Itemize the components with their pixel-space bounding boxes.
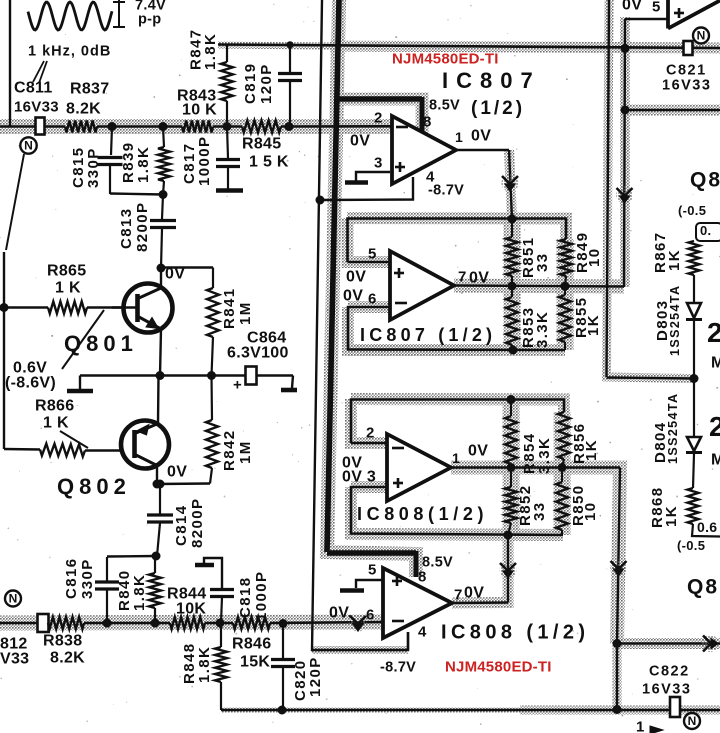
crossing mark xyxy=(502,175,519,192)
svg-text:R865: R865 xyxy=(47,263,86,280)
wire main bottom xyxy=(0,622,48,625)
junction dot xyxy=(316,196,325,205)
wire collector node xyxy=(160,268,162,288)
svg-text:8: 8 xyxy=(418,569,427,586)
op-amp U2 IC807b xyxy=(390,251,454,320)
svg-text:1K: 1K xyxy=(583,439,600,461)
junction dot xyxy=(508,282,517,291)
svg-text:3.3K: 3.3K xyxy=(536,437,553,474)
svg-text:1.8K: 1.8K xyxy=(135,146,152,183)
svg-text:p-p: p-p xyxy=(138,11,161,27)
junction dot xyxy=(153,480,162,489)
wire op3 output rail xyxy=(451,466,620,468)
svg-text:1K: 1K xyxy=(585,314,602,336)
capacitor C813 xyxy=(162,195,163,219)
junction dot xyxy=(108,122,117,131)
resistor R842 xyxy=(210,376,213,421)
svg-text:R845: R845 xyxy=(242,136,281,153)
svg-text:R841: R841 xyxy=(221,288,238,329)
svg-text:10K: 10K xyxy=(176,601,206,618)
leader R866 xyxy=(60,431,88,448)
waveform sine 1kHz xyxy=(28,2,112,30)
junction dot xyxy=(156,371,165,380)
resistor R855 xyxy=(564,286,566,295)
wire op4 output xyxy=(452,601,508,604)
resistor R866 xyxy=(4,448,40,451)
box IC808a xyxy=(351,400,564,444)
node N bottom-right xyxy=(684,713,700,729)
wire bottom rail xyxy=(221,709,720,712)
junction dot xyxy=(223,122,232,131)
resistor R868 xyxy=(693,454,694,488)
svg-text:1.8K: 1.8K xyxy=(202,33,219,70)
svg-text:M: M xyxy=(711,452,720,469)
svg-text:0V: 0V xyxy=(343,288,363,305)
svg-text:N: N xyxy=(688,714,697,728)
svg-text:33: 33 xyxy=(531,502,548,522)
svg-text:2: 2 xyxy=(374,110,383,127)
svg-text:3.3K: 3.3K xyxy=(534,311,551,348)
svg-text:1.8K: 1.8K xyxy=(196,646,213,683)
capacitor C820 xyxy=(282,624,284,659)
wire C816-R840 top xyxy=(107,555,157,558)
svg-text:8.2K: 8.2K xyxy=(66,101,101,118)
op-amp U4 IC808b xyxy=(383,568,452,638)
svg-text:1000P: 1000P xyxy=(253,571,270,621)
svg-text:1: 1 xyxy=(452,450,460,466)
wire Q802 top to rail xyxy=(157,376,160,424)
resistor R856 xyxy=(558,412,570,459)
wire 643 xyxy=(617,642,720,645)
resistor R854 xyxy=(510,400,512,417)
svg-text:1SS254TA: 1SS254TA xyxy=(666,393,680,464)
svg-text:120P: 120P xyxy=(307,656,324,697)
wire diag from N xyxy=(6,154,24,250)
svg-text:C813: C813 xyxy=(118,208,135,249)
svg-text:C814: C814 xyxy=(173,505,190,546)
svg-text:0V: 0V xyxy=(167,464,187,481)
svg-text:1 K: 1 K xyxy=(43,415,69,432)
svg-text:120P: 120P xyxy=(258,63,275,104)
svg-text:15K: 15K xyxy=(240,654,270,671)
svg-text:R838: R838 xyxy=(43,633,82,650)
resistor R839 xyxy=(163,127,164,148)
junction dot xyxy=(156,480,165,489)
svg-text:R846: R846 xyxy=(232,636,271,653)
svg-text:V33: V33 xyxy=(0,651,29,668)
resistor R849 xyxy=(560,239,572,276)
svg-text:N: N xyxy=(24,139,33,153)
svg-text:1 5 K: 1 5 K xyxy=(249,154,289,171)
crossing mark xyxy=(702,635,719,652)
svg-text:8200P: 8200P xyxy=(189,498,206,548)
svg-text:8200P: 8200P xyxy=(134,202,151,252)
node N bottom-left xyxy=(5,591,21,607)
svg-text:8: 8 xyxy=(423,114,432,131)
svg-text:C819: C819 xyxy=(242,63,259,104)
capacitor C817 xyxy=(227,127,228,159)
svg-text:330P: 330P xyxy=(79,558,96,599)
junction dot xyxy=(507,395,516,404)
svg-text:2: 2 xyxy=(707,317,720,348)
svg-text:5: 5 xyxy=(368,246,377,263)
svg-text:R866: R866 xyxy=(35,398,74,415)
svg-text:1K: 1K xyxy=(666,249,683,271)
svg-text:-8.7V: -8.7V xyxy=(428,182,464,198)
svg-text:7: 7 xyxy=(454,587,463,604)
junction dot xyxy=(558,463,567,472)
junction dot xyxy=(103,619,112,628)
svg-text:C821: C821 xyxy=(666,62,707,78)
crossing mark xyxy=(616,187,633,204)
svg-text:0V: 0V xyxy=(350,133,370,150)
svg-text:N: N xyxy=(9,592,18,606)
wire pin3 ground xyxy=(356,172,390,181)
svg-text:NJM4580ED-TI: NJM4580ED-TI xyxy=(445,659,552,676)
ground C817 xyxy=(216,188,243,193)
junction dot xyxy=(216,619,225,628)
svg-text:5: 5 xyxy=(652,0,661,16)
capacitor C822 xyxy=(670,697,680,717)
capacitor C821 xyxy=(684,41,693,55)
capacitor C811 xyxy=(36,118,45,135)
svg-text:0V: 0V xyxy=(468,443,488,460)
wire C815-R839 bottom xyxy=(110,194,163,195)
svg-text:8.5V: 8.5V xyxy=(429,97,460,113)
wire to R865 xyxy=(4,306,48,308)
junction dot xyxy=(690,374,699,383)
svg-text:16V33: 16V33 xyxy=(14,99,59,116)
crossing mark xyxy=(500,562,517,579)
resistor R838 xyxy=(48,617,84,629)
junction dot xyxy=(159,122,168,131)
svg-text:4: 4 xyxy=(418,624,427,641)
junction dot xyxy=(613,705,622,714)
svg-text:Q802: Q802 xyxy=(57,474,131,499)
junction dot xyxy=(504,531,513,540)
crossing mark xyxy=(350,615,367,632)
svg-text:0.: 0. xyxy=(700,223,711,238)
op-amp U1 IC807a xyxy=(392,116,456,184)
svg-text:7: 7 xyxy=(458,269,467,286)
svg-text:0V: 0V xyxy=(622,0,642,14)
wire pin5 ground op4 xyxy=(356,580,383,588)
svg-text:Q8: Q8 xyxy=(690,168,720,191)
crossing mark xyxy=(610,560,627,577)
svg-text:NJM4580ED-TI: NJM4580ED-TI xyxy=(392,51,499,68)
svg-text:R842: R842 xyxy=(221,430,238,471)
node N top-left xyxy=(20,137,36,153)
svg-text:M: M xyxy=(711,355,720,372)
wire Q802 collector xyxy=(156,466,158,485)
resistor R867 xyxy=(689,241,700,275)
svg-text:2: 2 xyxy=(709,411,720,442)
resistor R841 xyxy=(212,268,214,289)
capacitor C818 xyxy=(195,563,214,568)
svg-text:1M: 1M xyxy=(237,301,254,325)
junction dot xyxy=(285,122,294,131)
wire op2 output rail xyxy=(454,286,624,287)
svg-text:1 kHz, 0dB: 1 kHz, 0dB xyxy=(28,43,111,59)
resistor R846 xyxy=(233,617,270,629)
svg-text:1M: 1M xyxy=(237,440,254,464)
wire left branch vertical xyxy=(3,252,5,449)
svg-text:0V 3: 0V 3 xyxy=(342,469,376,486)
svg-text:10: 10 xyxy=(586,248,603,268)
resistor R840 xyxy=(154,556,156,573)
leader Q801 xyxy=(62,310,104,369)
svg-text:(-8.6V): (-8.6V) xyxy=(5,375,56,392)
svg-text:0.6: 0.6 xyxy=(697,519,717,535)
junction dot xyxy=(508,215,517,224)
resistor R853 xyxy=(511,286,513,297)
svg-text:3: 3 xyxy=(374,155,383,172)
leader lines to C811 xyxy=(33,61,44,82)
capacitor C815 xyxy=(111,127,112,156)
wire input vertical xyxy=(9,0,11,127)
svg-text:N: N xyxy=(697,29,706,43)
svg-text:IC808(1/2): IC808(1/2) xyxy=(357,504,488,524)
wire 110 xyxy=(625,109,720,112)
svg-text:R837: R837 xyxy=(70,81,109,98)
svg-text:C822: C822 xyxy=(649,663,690,679)
resistor R845 xyxy=(242,121,281,133)
svg-text:0V: 0V xyxy=(464,585,484,602)
rail -8.7V thin xyxy=(312,0,408,650)
resistor R850 xyxy=(561,468,563,483)
junction dot xyxy=(159,190,168,199)
svg-text:IC807 (1/2): IC807 (1/2) xyxy=(360,325,496,345)
junction dot xyxy=(207,371,216,380)
capacitor C812 xyxy=(38,614,49,632)
svg-text:0V.: 0V. xyxy=(329,605,352,622)
junction dot xyxy=(279,619,288,628)
svg-text:1: 1 xyxy=(455,129,463,145)
junction dot xyxy=(613,639,622,648)
svg-text:-8.7V: -8.7V xyxy=(380,659,416,675)
wire op1 output xyxy=(456,149,509,151)
box IC807b xyxy=(348,219,567,263)
svg-text:0V: 0V xyxy=(346,269,366,286)
junction dot xyxy=(621,44,630,53)
svg-text:IC808 (1/2): IC808 (1/2) xyxy=(441,622,589,644)
resistor R865 xyxy=(48,302,87,314)
junction dot xyxy=(561,282,570,291)
resistor R847 xyxy=(226,45,228,62)
svg-text:C811: C811 xyxy=(14,80,53,97)
svg-text:6.3V100: 6.3V100 xyxy=(227,345,289,362)
resistor R844 xyxy=(170,617,205,629)
wire top B xyxy=(218,45,720,49)
wire emitter Q801 xyxy=(160,329,161,376)
capacitor C814 xyxy=(159,484,161,514)
junction dot xyxy=(157,264,166,273)
svg-text:6: 6 xyxy=(368,291,377,308)
svg-text:IC807: IC807 xyxy=(442,68,541,93)
ground emitter rail xyxy=(79,376,81,390)
svg-text:5: 5 xyxy=(368,562,377,579)
wire base Q801 xyxy=(87,306,136,308)
diode D803 xyxy=(687,303,701,318)
resistor R848 xyxy=(220,623,222,647)
wire v624 xyxy=(625,18,668,20)
svg-text:1SS254TA: 1SS254TA xyxy=(668,285,682,356)
svg-text:0V: 0V xyxy=(471,128,491,145)
junction dot xyxy=(152,552,161,561)
p-p bracket xyxy=(118,0,120,28)
svg-text:1.8K: 1.8K xyxy=(131,574,148,611)
capacitor C864 xyxy=(246,367,257,385)
junction dot xyxy=(151,619,160,628)
junction dot xyxy=(621,106,630,115)
svg-text:16V33: 16V33 xyxy=(662,77,711,93)
resistor R843 xyxy=(182,121,213,133)
junction dot xyxy=(278,706,287,715)
svg-text:1K: 1K xyxy=(663,505,680,527)
junction dot xyxy=(509,346,518,355)
transistor Q802 xyxy=(121,421,169,469)
svg-text:2: 2 xyxy=(366,425,375,442)
svg-text:10 K: 10 K xyxy=(182,102,217,119)
capacitor C819 xyxy=(289,45,291,74)
transistor Q801 xyxy=(124,284,173,333)
svg-text:1 K: 1 K xyxy=(55,280,81,297)
svg-text:33: 33 xyxy=(534,253,551,273)
capacitor C816 xyxy=(106,557,108,581)
op-amp U5 partial xyxy=(666,0,670,29)
svg-text:16V33: 16V33 xyxy=(642,681,691,697)
svg-text:(1/2): (1/2) xyxy=(471,98,525,119)
svg-text:Q8: Q8 xyxy=(687,575,719,598)
junction dot xyxy=(507,463,516,472)
node N top-right xyxy=(693,28,709,44)
ground C864 xyxy=(292,376,293,389)
resistor R851 xyxy=(511,219,513,238)
wire emitter rail xyxy=(80,374,245,376)
svg-text:6: 6 xyxy=(366,607,375,624)
rail +8.5V thick bus xyxy=(327,0,339,552)
svg-text:330P: 330P xyxy=(85,147,102,188)
resistor R837 xyxy=(65,121,97,133)
resistor R852 xyxy=(510,468,512,488)
svg-text:0V: 0V xyxy=(469,270,489,287)
svg-text:+: + xyxy=(233,377,242,394)
svg-text:C816: C816 xyxy=(63,558,80,599)
wire main top xyxy=(0,125,65,128)
wire v609 xyxy=(607,0,610,377)
junction dot xyxy=(286,41,293,48)
svg-text:10: 10 xyxy=(582,502,599,522)
svg-text:(-0.5: (-0.5 xyxy=(677,538,705,553)
svg-text:(-0.5: (-0.5 xyxy=(678,203,706,218)
box 0. label xyxy=(696,223,720,241)
wire pin4 to rail xyxy=(321,177,413,200)
svg-text:Q801: Q801 xyxy=(64,331,138,356)
junction dot xyxy=(0,303,9,312)
diode D804 xyxy=(693,379,695,438)
svg-text:8.2K: 8.2K xyxy=(50,650,85,667)
svg-text:1: 1 xyxy=(636,719,645,733)
svg-text:C818: C818 xyxy=(237,577,254,618)
svg-text:1000P: 1000P xyxy=(196,136,213,186)
svg-text:8.5V: 8.5V xyxy=(422,554,453,570)
op-amp U3 IC808a xyxy=(387,434,451,501)
wire pin4 op4 xyxy=(407,632,409,650)
